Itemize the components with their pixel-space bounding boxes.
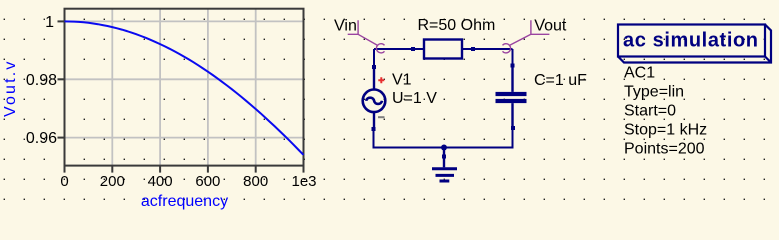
svg-text:0: 0 [60,173,68,190]
svg-text:acfrequency: acfrequency [141,193,228,210]
x axis tick labels [60,173,316,190]
ac simulation box [618,25,771,63]
capacitor C1 [496,64,527,131]
diagram frame [65,9,304,166]
node Vout [503,18,567,53]
resistor R1 [411,40,475,59]
voltage source V1 [363,65,386,131]
svg-text:C=1 uF: C=1 uF [534,72,587,89]
y axis tick labels [26,14,57,147]
svg-text:0.98: 0.98 [26,72,57,89]
svg-text:1: 1 [45,14,54,31]
ground [432,148,457,182]
svg-text:Vin: Vin [334,18,357,35]
svg-text:Vout: Vout [534,18,567,35]
svg-text:Start=0: Start=0 [624,102,676,119]
svg-text:U=1 V: U=1 V [392,90,437,107]
junction ground node [441,145,447,151]
curve Vout.v [65,21,304,155]
svg-text:AC1: AC1 [624,64,655,81]
wire top-left vertical (Vin node down to V1) [373,49,375,67]
svg-text:1e3: 1e3 [291,173,316,190]
axis ticks [58,21,304,172]
wire top-right vertical (Vout node down to C1) [512,49,514,66]
svg-text:Vout.v: Vout.v [2,59,19,117]
svg-text:0.96: 0.96 [26,130,57,147]
wire top-left horizontal (Vin node to R1) [374,48,413,50]
svg-text:200: 200 [100,173,125,190]
svg-text:400: 400 [148,173,173,190]
svg-text:600: 600 [195,173,220,190]
wire top-right horizontal (R1 to Vout node) [473,48,513,50]
diagram grid lines [58,9,304,166]
svg-text:Points=200: Points=200 [624,140,705,157]
svg-text:800: 800 [243,173,268,190]
svg-text:Type=lin: Type=lin [624,83,684,100]
svg-text:ac simulation: ac simulation [623,30,759,52]
svg-text:R=50 Ohm: R=50 Ohm [418,17,496,34]
svg-text:Stop=1 kHz: Stop=1 kHz [624,121,707,138]
simulation parameters text [624,64,707,157]
svg-text:V1: V1 [392,72,412,89]
node Vin [334,18,385,53]
wire bottom horizontal [374,128,513,148]
